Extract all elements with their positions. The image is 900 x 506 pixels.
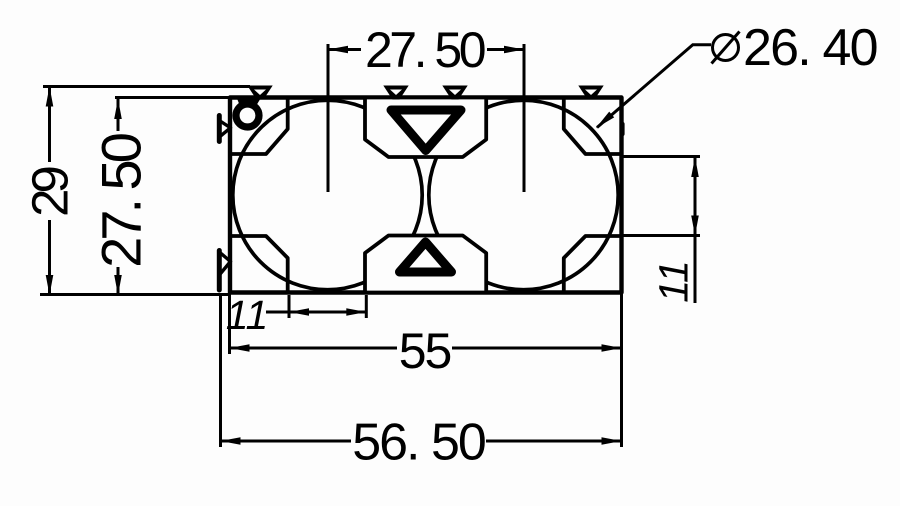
screw channel slot bottom (thick triangle) — [400, 242, 452, 272]
notch 3 — [442, 86, 467, 100]
right edge detent — [621, 124, 625, 134]
left clip tab upper — [217, 116, 222, 142]
center web top block — [365, 98, 486, 158]
corner gusset bottom-left — [231, 236, 288, 292]
dim 55 arrows — [230, 344, 250, 352]
dim 55 lines — [231, 347, 397, 350]
svg-text:55: 55 — [399, 323, 451, 379]
svg-text:27. 50: 27. 50 — [365, 22, 485, 78]
notch 2 — [383, 86, 408, 100]
corner gusset top-right — [564, 98, 621, 154]
dim 27.50 left arrows — [114, 99, 122, 119]
leader arrow — [596, 112, 614, 129]
corner gusset bottom-right — [564, 236, 621, 292]
dim 11 bottom arrows — [289, 308, 309, 316]
svg-text:26. 40: 26. 40 — [743, 19, 877, 77]
dim 27.50 left lines — [117, 99, 120, 131]
dim 56.50 arrows — [221, 437, 241, 445]
notch 1 — [247, 86, 272, 100]
cell cavity circle 1 — [233, 100, 422, 289]
screw channel slot top (thick triangle) — [391, 110, 461, 151]
dim 27.50 top lines — [328, 48, 361, 51]
svg-text:11: 11 — [226, 292, 269, 338]
dim 11 right lines — [694, 157, 697, 303]
corner gusset top-left — [231, 98, 288, 154]
top face V-notches — [247, 86, 603, 100]
dim 11 right arrows — [691, 157, 699, 177]
dim 29 arrows — [46, 87, 54, 107]
svg-text:27. 50: 27. 50 — [90, 134, 153, 268]
svg-text:56. 50: 56. 50 — [352, 414, 485, 472]
center web bottom block — [365, 236, 486, 293]
leader diameter 26.40 — [597, 45, 711, 128]
svg-text:11: 11 — [651, 260, 697, 303]
notch 4 — [578, 86, 603, 100]
left clip tab lower — [217, 251, 222, 291]
profile body outline — [230, 98, 622, 293]
screw boss ring top-left — [236, 104, 259, 127]
svg-text:29: 29 — [22, 168, 79, 217]
dim 27.50 top arrows — [328, 46, 348, 54]
arrowheads — [46, 46, 699, 445]
dim 11 bottom lines — [266, 311, 366, 314]
dim 56.50 lines — [222, 440, 351, 443]
cell cavity circle 2 — [429, 100, 618, 289]
diameter symbol — [713, 35, 739, 61]
dim 29 lines — [48, 87, 51, 163]
